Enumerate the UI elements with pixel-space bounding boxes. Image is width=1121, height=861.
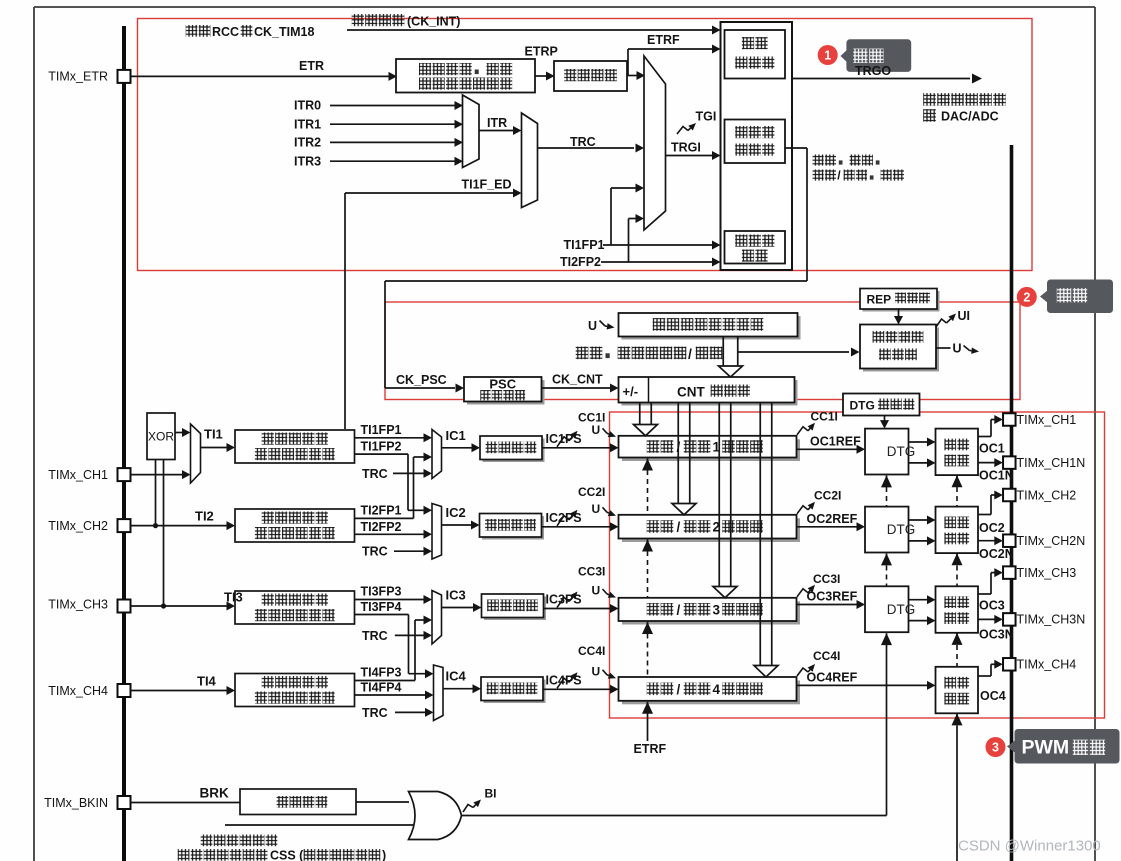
svg-text:TIMx_CH3N: TIMx_CH3N: [1017, 613, 1086, 627]
svg-text:TIMx_CH2: TIMx_CH2: [1017, 488, 1077, 502]
svg-text:/: /: [677, 520, 681, 535]
svg-text:PWM: PWM: [1022, 737, 1070, 759]
svg-text:OC1: OC1: [979, 442, 1005, 456]
svg-text:XOR: XOR: [148, 430, 174, 444]
svg-text:ITR: ITR: [487, 116, 507, 130]
svg-text:IC2PS: IC2PS: [546, 511, 582, 525]
svg-text:DAC/ADC: DAC/ADC: [941, 110, 999, 124]
svg-text:OC3REF: OC3REF: [807, 590, 858, 604]
svg-text:ITR0: ITR0: [294, 99, 321, 113]
svg-text:RCC: RCC: [212, 25, 239, 39]
svg-text:TI2: TI2: [195, 509, 214, 524]
svg-text:DTG: DTG: [887, 444, 916, 459]
svg-text:2: 2: [1023, 290, 1030, 304]
svg-text:REP: REP: [867, 293, 892, 307]
svg-text:TI2FP2: TI2FP2: [361, 520, 402, 534]
svg-text:IC3: IC3: [446, 588, 466, 603]
svg-text:): ): [382, 849, 386, 861]
svg-text:TIMx_CH2N: TIMx_CH2N: [1017, 534, 1086, 548]
svg-text:OC3: OC3: [979, 599, 1005, 613]
svg-text:TRC: TRC: [362, 706, 388, 720]
svg-text:CC2I: CC2I: [814, 489, 841, 503]
svg-text:2: 2: [713, 520, 721, 535]
svg-text:TI1F_ED: TI1F_ED: [462, 178, 512, 192]
svg-text:TIMx_CH4: TIMx_CH4: [48, 684, 108, 698]
svg-text:ETRP: ETRP: [525, 45, 558, 59]
svg-text:OC4: OC4: [980, 689, 1006, 703]
svg-text:IC4PS: IC4PS: [546, 673, 582, 687]
svg-text:CC3I: CC3I: [578, 565, 605, 579]
svg-text:UI: UI: [958, 309, 971, 323]
svg-text:TGI: TGI: [696, 110, 717, 124]
svg-text:CK_PSC: CK_PSC: [396, 373, 447, 387]
svg-text:3: 3: [992, 741, 999, 755]
svg-text:TRC: TRC: [362, 467, 388, 481]
svg-text:/: /: [837, 169, 841, 183]
svg-text:U: U: [592, 584, 601, 598]
svg-text:U: U: [592, 423, 601, 437]
svg-text:TIMx_CH3: TIMx_CH3: [1017, 566, 1077, 580]
svg-text:4: 4: [713, 682, 721, 697]
svg-text:1: 1: [713, 440, 721, 455]
svg-text:CSDN @Winner1300: CSDN @Winner1300: [958, 838, 1101, 855]
svg-text:CC3I: CC3I: [813, 572, 840, 586]
svg-text:CC4I: CC4I: [578, 644, 605, 658]
svg-text:U: U: [953, 342, 962, 356]
svg-text:TI1FP1: TI1FP1: [564, 238, 605, 252]
svg-text:TI1: TI1: [204, 427, 223, 442]
svg-text:TI4: TI4: [197, 674, 217, 689]
svg-text:PSC: PSC: [489, 377, 516, 392]
svg-text:TRC: TRC: [362, 629, 388, 643]
svg-text:OC3N: OC3N: [979, 628, 1014, 642]
svg-text:CC1I: CC1I: [811, 410, 838, 424]
svg-text:U: U: [592, 664, 601, 678]
svg-text:CK_TIM18: CK_TIM18: [254, 25, 314, 39]
svg-text:OC2: OC2: [979, 521, 1005, 535]
svg-text:TI3FP4: TI3FP4: [361, 600, 402, 614]
svg-text:OC1N: OC1N: [979, 469, 1014, 483]
svg-text:/: /: [688, 346, 692, 362]
svg-text:TI1FP2: TI1FP2: [361, 440, 402, 454]
svg-text:IC4: IC4: [446, 669, 467, 684]
svg-text:TI3: TI3: [224, 590, 243, 605]
svg-text:U: U: [592, 502, 601, 516]
svg-text:DTG: DTG: [887, 602, 916, 617]
svg-text:DTG: DTG: [887, 522, 916, 537]
svg-text:DTG: DTG: [850, 399, 875, 413]
svg-text:BRK: BRK: [200, 786, 229, 801]
svg-text:IC1PS: IC1PS: [546, 432, 582, 446]
svg-text:IC1: IC1: [446, 428, 466, 443]
svg-text:CK_CNT: CK_CNT: [552, 373, 603, 387]
svg-text:CNT: CNT: [677, 385, 705, 400]
svg-text:OC2REF: OC2REF: [807, 512, 858, 526]
svg-text:/: /: [677, 440, 681, 455]
svg-text:U: U: [588, 319, 597, 333]
svg-text:ITR1: ITR1: [294, 117, 321, 131]
svg-text:OC2N: OC2N: [979, 547, 1014, 561]
svg-text:TIMx_CH3: TIMx_CH3: [48, 597, 108, 611]
svg-text:TIMx_CH1: TIMx_CH1: [48, 468, 108, 482]
svg-text:OC1REF: OC1REF: [810, 434, 861, 448]
svg-text:1: 1: [824, 49, 831, 63]
svg-text:ETR: ETR: [299, 59, 324, 73]
svg-text:TIMx_CH1: TIMx_CH1: [1017, 413, 1077, 427]
svg-text:IC2: IC2: [446, 505, 466, 520]
svg-text:BI: BI: [485, 787, 497, 801]
svg-text:ETRF: ETRF: [647, 33, 680, 47]
svg-text:ITR3: ITR3: [294, 154, 321, 168]
svg-text:TRGO: TRGO: [855, 64, 891, 78]
svg-text:IC3PS: IC3PS: [546, 593, 582, 607]
svg-text:TI3FP3: TI3FP3: [361, 585, 402, 599]
svg-text:CSS (: CSS (: [270, 849, 304, 861]
svg-text:TRC: TRC: [362, 545, 388, 559]
svg-text:TRC: TRC: [570, 135, 596, 149]
svg-text:TI4FP3: TI4FP3: [361, 666, 402, 680]
svg-text:+/-: +/-: [623, 384, 639, 399]
svg-text:TRGI: TRGI: [671, 141, 701, 155]
svg-text:ITR2: ITR2: [294, 136, 321, 150]
svg-text:TIMx_BKIN: TIMx_BKIN: [44, 796, 108, 810]
svg-text:TIMx_CH2: TIMx_CH2: [48, 519, 108, 533]
svg-text:/: /: [677, 682, 681, 697]
svg-text:TI2FP2: TI2FP2: [560, 255, 601, 269]
svg-text:3: 3: [713, 602, 721, 617]
svg-text:TIMx_CH4: TIMx_CH4: [1017, 658, 1077, 672]
svg-text:TI4FP4: TI4FP4: [361, 681, 402, 695]
svg-text:CC2I: CC2I: [578, 485, 605, 499]
svg-text:TIMx_CH1N: TIMx_CH1N: [1017, 456, 1086, 470]
svg-text:/: /: [677, 602, 681, 617]
svg-text:OC4REF: OC4REF: [807, 670, 858, 684]
svg-text:CC4I: CC4I: [813, 649, 840, 663]
svg-text:TI1FP1: TI1FP1: [361, 423, 402, 437]
svg-text:(CK_INT): (CK_INT): [407, 15, 460, 29]
svg-text:TI2FP1: TI2FP1: [361, 503, 402, 517]
svg-text:TIMx_ETR: TIMx_ETR: [48, 70, 108, 84]
svg-text:ETRF: ETRF: [634, 742, 667, 756]
